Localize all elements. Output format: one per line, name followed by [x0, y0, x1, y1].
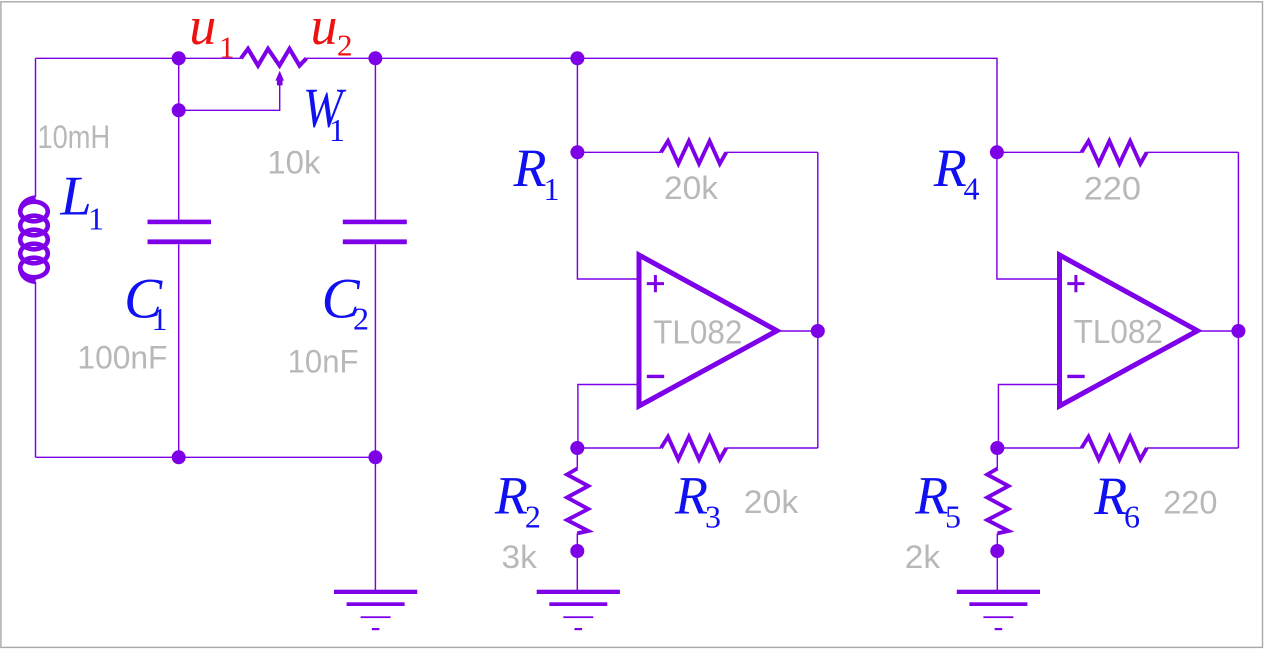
- op-amp U1: [639, 255, 777, 406]
- wire: [997, 151, 1082, 153]
- svg-text:u: u: [311, 0, 338, 56]
- svg-text:3: 3: [705, 498, 721, 534]
- inductor L1: [20, 198, 48, 282]
- svg-text:TL082: TL082: [653, 314, 742, 351]
- wire: [726, 151, 818, 153]
- wire: [576, 533, 578, 551]
- node: [570, 145, 584, 159]
- wire: [1237, 152, 1239, 448]
- svg-text:R: R: [914, 466, 948, 526]
- svg-text:TL082: TL082: [1074, 313, 1163, 350]
- wire: [998, 385, 1059, 449]
- wire: [996, 533, 998, 551]
- wire: [817, 152, 819, 448]
- op-amp U2 plus: [1067, 275, 1084, 292]
- wire: [1147, 151, 1239, 153]
- wire: [179, 84, 280, 110]
- svg-text:1: 1: [329, 112, 345, 148]
- resistor R1: [661, 141, 726, 164]
- svg-text:220: 220: [1084, 172, 1141, 208]
- resistor R4: [1082, 141, 1147, 164]
- op-amp U2 minus: [1067, 375, 1084, 378]
- wire: [178, 58, 180, 219]
- svg-text:10mH: 10mH: [38, 120, 111, 156]
- svg-text:2k: 2k: [905, 539, 941, 575]
- wire: [36, 456, 376, 458]
- wire: [726, 447, 818, 449]
- svg-text:10nF: 10nF: [288, 343, 359, 380]
- op-amp U1 minus: [647, 375, 664, 378]
- node: [172, 450, 186, 464]
- svg-text:u: u: [189, 0, 216, 56]
- ground: [334, 590, 417, 631]
- svg-text:1: 1: [88, 200, 104, 236]
- svg-text:R: R: [513, 138, 547, 198]
- wire: [374, 58, 376, 219]
- wire: [1147, 447, 1239, 449]
- wire: [996, 448, 998, 469]
- svg-text:5: 5: [945, 498, 961, 534]
- svg-text:2: 2: [337, 28, 353, 63]
- wire: [178, 244, 180, 457]
- potentiometer W1: [241, 49, 307, 66]
- svg-text:L: L: [60, 166, 92, 228]
- wire: [374, 457, 376, 590]
- wire: [35, 282, 37, 457]
- svg-text:1: 1: [219, 30, 235, 65]
- wire: [576, 448, 578, 469]
- resistor R2: [567, 469, 588, 534]
- node: [990, 544, 1004, 558]
- svg-text:R: R: [933, 138, 967, 198]
- svg-text:20k: 20k: [744, 484, 799, 520]
- wire: [576, 58, 578, 152]
- node: [570, 544, 584, 558]
- wire: [35, 58, 37, 197]
- svg-text:20k: 20k: [664, 170, 719, 206]
- resistor R3: [661, 437, 726, 460]
- wire: [997, 447, 1081, 449]
- wire: [777, 330, 818, 332]
- ground: [957, 590, 1040, 631]
- svg-text:4: 4: [964, 171, 980, 207]
- svg-text:2: 2: [525, 498, 541, 534]
- svg-text:100nF: 100nF: [77, 339, 167, 375]
- wire: [997, 152, 1060, 279]
- wire: [996, 551, 998, 590]
- resistor R5: [987, 469, 1008, 534]
- wire: [307, 58, 998, 152]
- svg-text:3k: 3k: [502, 538, 538, 574]
- capacitor C2: [343, 220, 407, 245]
- node: [811, 324, 825, 338]
- ground: [537, 590, 620, 631]
- svg-text:10k: 10k: [267, 145, 321, 180]
- wiper arrow W1: [275, 71, 284, 86]
- svg-text:2: 2: [353, 301, 369, 337]
- op-amp U2: [1060, 255, 1198, 406]
- svg-text:6: 6: [1124, 498, 1140, 534]
- wire: [577, 447, 661, 449]
- node: [990, 441, 1004, 455]
- svg-text:R: R: [674, 466, 708, 526]
- wire: [576, 551, 578, 590]
- node: [368, 450, 382, 464]
- svg-text:R: R: [1093, 466, 1127, 526]
- node: [1231, 324, 1245, 338]
- wire: [1198, 330, 1239, 332]
- node: [570, 441, 584, 455]
- capacitor C1: [148, 220, 212, 245]
- wire: [578, 385, 639, 449]
- svg-text:1: 1: [544, 171, 560, 207]
- resistor R6: [1082, 437, 1147, 460]
- node u2: [368, 51, 382, 65]
- node: [172, 103, 186, 117]
- svg-text:1: 1: [152, 301, 168, 337]
- op-amp U1 plus: [647, 275, 664, 292]
- node: [570, 51, 584, 65]
- svg-text:R: R: [494, 466, 528, 526]
- node: [990, 145, 1004, 159]
- wire: [374, 244, 376, 457]
- wire: [577, 151, 661, 153]
- wire: [36, 57, 242, 59]
- node u1: [172, 51, 186, 65]
- svg-text:220: 220: [1163, 485, 1217, 521]
- wire: [577, 152, 639, 279]
